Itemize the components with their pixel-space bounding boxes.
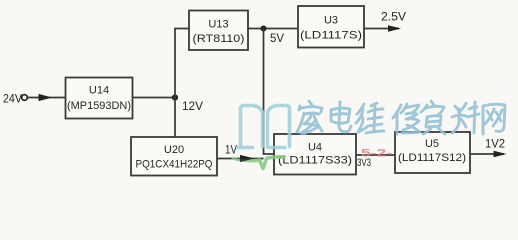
arrow into U14 bbox=[39, 94, 53, 101]
svg-text:5V: 5V bbox=[270, 31, 284, 45]
电 bbox=[331, 102, 351, 132]
修 bbox=[393, 104, 420, 134]
regulator U3 (LD1117S) bbox=[298, 6, 364, 48]
svg-text:PQ1CX41H22PQ: PQ1CX41H22PQ bbox=[136, 159, 213, 171]
node 12V junction bbox=[172, 94, 178, 100]
svg-text:(RT8110): (RT8110) bbox=[193, 33, 245, 45]
svg-text:(MP1593DN): (MP1593DN) bbox=[67, 100, 131, 112]
网 bbox=[483, 104, 505, 134]
regulator U13 (RT8110) bbox=[189, 11, 248, 51]
家 bbox=[297, 101, 322, 134]
watermark (decorative) bbox=[233, 106, 290, 169]
svg-text:U20: U20 bbox=[164, 144, 184, 156]
regulator U4 (LD1117S33) bbox=[274, 134, 356, 175]
svg-text:(LD1117S33): (LD1117S33) bbox=[278, 155, 352, 167]
wire U13 output to 5V node and on to U3 input bbox=[248, 28, 298, 30]
料 bbox=[452, 102, 479, 133]
regulator U14 (MP1593DN) bbox=[66, 78, 133, 119]
维 bbox=[356, 103, 384, 133]
wire 12V riser up to U13 and down to U20 bbox=[175, 29, 189, 138]
wire U20 output to U4 input rail bbox=[217, 158, 264, 160]
wire U3 output 2.5V with arrow bbox=[364, 28, 399, 30]
svg-text:24V: 24V bbox=[3, 92, 22, 106]
node 24V input terminal bbox=[3, 92, 27, 106]
svg-text:U4: U4 bbox=[308, 142, 322, 154]
svg-text:1V: 1V bbox=[225, 143, 237, 157]
regulator U20 (PQ1CX41H22PQ) bbox=[131, 137, 217, 176]
wire U4 output 3V3 to U5 input bbox=[356, 154, 395, 156]
svg-text:U3: U3 bbox=[324, 15, 338, 27]
svg-text:12V: 12V bbox=[182, 99, 203, 113]
svg-text:(LD1117S12): (LD1117S12) bbox=[398, 152, 466, 164]
wire 24V terminal to U14 input bbox=[28, 97, 66, 99]
svg-text:U14: U14 bbox=[89, 85, 109, 97]
svg-text:U13: U13 bbox=[208, 19, 228, 31]
wire 5V feed down to U4 input bbox=[264, 29, 275, 155]
wire U5 output 1V2 with arrow bbox=[470, 153, 504, 155]
node 5V junction bbox=[261, 26, 267, 32]
svg-text:U5: U5 bbox=[425, 138, 439, 150]
svg-text:1V2: 1V2 bbox=[485, 137, 505, 151]
regulator U5 (LD1117S12) bbox=[395, 132, 470, 173]
arrow on U20 output bbox=[240, 155, 255, 162]
wire U14 output to 12V node bbox=[133, 97, 176, 99]
svg-text:2.5V: 2.5V bbox=[381, 10, 406, 24]
资 bbox=[421, 101, 445, 134]
svg-text:5-2-: 5-2- bbox=[361, 148, 393, 160]
svg-text:(LD1117S): (LD1117S) bbox=[300, 30, 362, 42]
arrow on U20 output (repaint over watermark) bbox=[240, 155, 255, 162]
watermark text (decorative, hand-drawn CJK approximations) bbox=[297, 101, 505, 134]
